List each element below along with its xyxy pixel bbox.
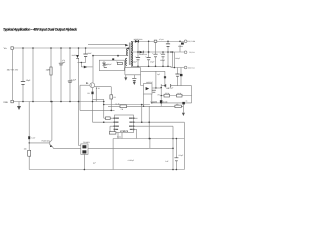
svg-text:GND: GND — [3, 101, 8, 104]
svg-text:LT4430: LT4430 — [150, 100, 158, 103]
svg-text:10µF: 10µF — [26, 79, 31, 82]
svg-text:47µF: 47µF — [133, 60, 138, 63]
svg-text:10k: 10k — [176, 103, 179, 106]
svg-text:MOC207: MOC207 — [146, 81, 153, 84]
svg-text:1µF: 1µF — [157, 73, 160, 76]
svg-text:10k: 10k — [24, 148, 27, 151]
svg-text:47k: 47k — [62, 59, 65, 62]
svg-text:3.01k: 3.01k — [117, 136, 121, 139]
svg-text:4.7µH: 4.7µH — [159, 38, 164, 41]
svg-text:PS2801: PS2801 — [83, 141, 89, 144]
svg-text:Typical Application – 48V Inpu: Typical Application – 48V Input Dual Out… — [3, 27, 78, 31]
svg-text:4.7Ω: 4.7Ω — [96, 87, 100, 90]
svg-text:1µF: 1µF — [93, 162, 96, 165]
svg-text:249k: 249k — [46, 69, 50, 72]
svg-text:100µF: 100µF — [160, 59, 166, 62]
svg-text:220pF: 220pF — [107, 63, 112, 66]
svg-text:R2: R2 — [88, 92, 90, 95]
svg-text:12.4k: 12.4k — [115, 102, 119, 105]
svg-text:0.033µF: 0.033µF — [128, 159, 134, 162]
svg-text:MBRS1100: MBRS1100 — [134, 38, 143, 41]
svg-text:LT3573: LT3573 — [120, 130, 129, 133]
svg-text:10.0k: 10.0k — [177, 92, 181, 95]
svg-text:+: + — [135, 55, 137, 58]
svg-text:2.2µF: 2.2µF — [71, 79, 77, 82]
svg-text:12V, 0.3A: 12V, 0.3A — [187, 40, 196, 43]
svg-text:6.04k: 6.04k — [163, 101, 167, 104]
svg-text:BAS21: BAS21 — [72, 54, 77, 57]
svg-text:1nF: 1nF — [165, 160, 169, 163]
svg-text:33.2k: 33.2k — [165, 92, 169, 95]
svg-text:FMMT493: FMMT493 — [42, 140, 50, 143]
svg-text:47µF: 47µF — [150, 60, 155, 63]
svg-text:10k: 10k — [166, 87, 169, 90]
svg-text:0.1µF: 0.1µF — [179, 154, 185, 157]
svg-text:5V, 1A: 5V, 1A — [189, 51, 195, 54]
svg-text:1k: 1k — [186, 99, 188, 102]
svg-text:36V TO 72V: 36V TO 72V — [7, 69, 19, 72]
svg-text:T1: T1 — [116, 61, 118, 64]
svg-text:3.3V, 1A: 3.3V, 1A — [188, 66, 196, 69]
svg-text:10nF: 10nF — [88, 52, 93, 55]
svg-text:100µF: 100µF — [175, 57, 180, 60]
svg-text:B240A: B240A — [178, 45, 184, 48]
svg-text:6.2V: 6.2V — [32, 137, 36, 140]
svg-text:FB: FB — [121, 108, 124, 111]
svg-text:VIN: VIN — [4, 47, 8, 50]
svg-text:R1: R1 — [114, 96, 116, 99]
svg-text:FB: FB — [158, 94, 161, 97]
